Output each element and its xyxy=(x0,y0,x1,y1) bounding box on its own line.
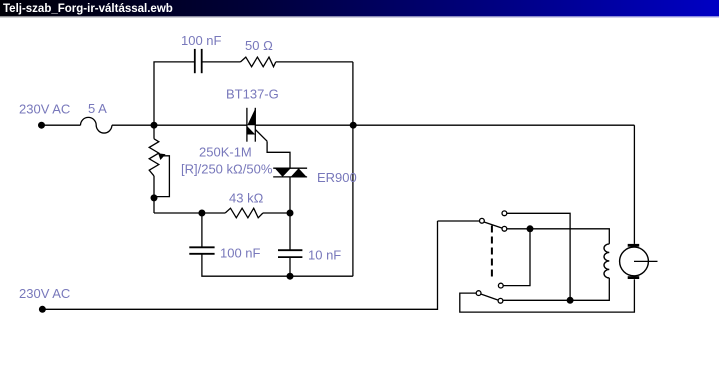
switch S1a common contact xyxy=(480,218,485,223)
wire pot bottom xyxy=(153,176,155,213)
node junction at x=154 xyxy=(151,122,158,129)
switch S1b common contact xyxy=(476,291,481,296)
potentiometer wiper arrow xyxy=(158,153,166,160)
motor M1 xyxy=(620,244,658,279)
svg-text:250K-1M: 250K-1M xyxy=(199,145,252,160)
node junction x570 bottom xyxy=(567,297,574,304)
wire xyxy=(276,61,353,63)
node: left AC terminal top xyxy=(38,122,45,129)
triac BT137-G xyxy=(247,108,267,142)
wire common to bottom rail xyxy=(460,279,635,312)
switch S1b lower throw contact xyxy=(498,298,503,303)
capacitor 100 nF (phase shift) xyxy=(189,247,214,254)
capacitor 10 nF xyxy=(278,250,302,257)
svg-text:100 nF: 100 nF xyxy=(220,246,261,261)
switch S1a upper throw contact xyxy=(502,211,507,216)
node junction 100nF top xyxy=(198,210,205,217)
svg-text:[R]/250 kΩ/50%: [R]/250 kΩ/50% xyxy=(181,162,273,177)
switch S1a lower throw contact xyxy=(502,226,507,231)
wire gate path xyxy=(267,141,290,168)
resistor 50 ohm xyxy=(241,57,276,67)
svg-text:100 nF: 100 nF xyxy=(181,33,222,48)
wire xyxy=(42,124,81,126)
wire motor top lead xyxy=(633,125,635,244)
resistor 43 kohm xyxy=(225,208,263,218)
switch link dashed xyxy=(491,226,493,278)
title bar xyxy=(0,0,719,16)
wire 10nF top lead xyxy=(289,213,291,250)
wire x530 down xyxy=(503,229,530,286)
wire main rail right xyxy=(255,124,634,126)
potentiometer 250K-1M body xyxy=(153,125,155,139)
diac ER900 xyxy=(273,168,307,177)
svg-text:5 A: 5 A xyxy=(88,101,107,116)
fuse F1 5 A xyxy=(81,117,112,133)
wire xyxy=(112,124,247,126)
wire junction to coil top xyxy=(530,229,609,244)
capacitor 100 nF (snubber) xyxy=(195,49,202,73)
node: bottom AC terminal xyxy=(39,306,46,313)
wire lower throw to coil bottom xyxy=(503,278,609,300)
wire bottom RC rail xyxy=(154,212,225,214)
wire snubber right vertical xyxy=(352,62,354,276)
switch S1b blade xyxy=(481,294,499,300)
wire 100nF cap leads xyxy=(201,213,203,247)
switch S1a blade xyxy=(484,222,502,228)
wire snubber left vertical xyxy=(154,62,195,125)
wire xyxy=(289,258,291,276)
svg-text:230V AC: 230V AC xyxy=(19,102,70,117)
wire xyxy=(202,255,353,277)
svg-text:Telj-szab_Forg-ir-váltással.ew: Telj-szab_Forg-ir-váltással.ewb xyxy=(3,3,173,15)
wire bottom AC rail xyxy=(42,221,437,309)
switch S1b upper throw contact xyxy=(498,283,503,288)
wire diac to junction xyxy=(289,177,291,213)
svg-text:10 nF: 10 nF xyxy=(308,248,341,263)
svg-text:ER900: ER900 xyxy=(317,170,357,185)
svg-text:BT137-G: BT137-G xyxy=(226,87,279,102)
wire xyxy=(202,61,241,63)
svg-text:43 kΩ: 43 kΩ xyxy=(229,191,264,206)
svg-text:50 Ω: 50 Ω xyxy=(245,38,273,53)
wire to switch common xyxy=(438,220,480,222)
node junction 10nF bottom xyxy=(287,273,294,280)
inductor field coil xyxy=(604,244,609,278)
wire lower throw to junction xyxy=(507,228,530,230)
wire wiper loop xyxy=(154,156,169,197)
wire xyxy=(263,212,290,214)
node junction x530 xyxy=(527,225,534,232)
node junction 43k/diac/10nF xyxy=(287,210,294,217)
node pot bottom terminal xyxy=(151,194,158,201)
svg-text:230V AC: 230V AC xyxy=(19,286,70,301)
wire upper throw to right xyxy=(507,213,570,300)
node junction at x=353 xyxy=(350,122,357,129)
